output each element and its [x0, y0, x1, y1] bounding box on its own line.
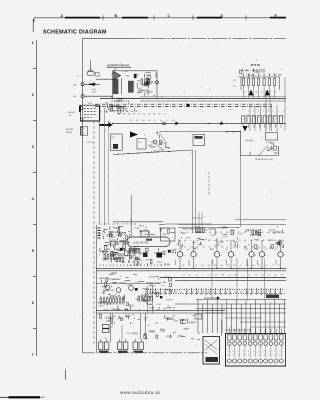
svg-text:Q884: Q884: [110, 295, 116, 298]
svg-text:GND: GND: [125, 76, 130, 78]
svg-text:R409: R409: [250, 235, 256, 237]
svg-text:SPKR: SPKR: [66, 132, 72, 134]
svg-text:R204: R204: [166, 335, 172, 338]
svg-text:SW985: SW985: [160, 142, 168, 144]
svg-text:120V: 120V: [92, 91, 97, 93]
svg-text:VR739: VR739: [248, 75, 254, 77]
svg-text:a: a: [238, 350, 239, 352]
svg-text:a: a: [274, 350, 275, 352]
svg-text:VR148: VR148: [149, 276, 155, 278]
svg-text:D933: D933: [109, 319, 114, 321]
svg-text:IC201 AN7062: IC201 AN7062: [133, 241, 149, 244]
svg-text:TR979: TR979: [166, 300, 173, 302]
svg-text:D843: D843: [185, 237, 190, 239]
svg-text:6: 6: [32, 301, 34, 305]
svg-text:VR758: VR758: [164, 264, 170, 266]
svg-text:NJM: NJM: [162, 234, 167, 236]
svg-text:TR130: TR130: [157, 262, 164, 264]
svg-text:C822: C822: [149, 307, 155, 309]
svg-text:Q694: Q694: [147, 145, 153, 147]
svg-text:a: a: [253, 350, 254, 352]
svg-text:C592: C592: [128, 285, 134, 287]
svg-text:L947: L947: [210, 235, 216, 237]
svg-text:Q752: Q752: [102, 259, 108, 261]
svg-text:1: 1: [32, 41, 34, 45]
svg-text:4: 4: [32, 197, 34, 201]
svg-text:IC943: IC943: [106, 321, 113, 323]
svg-text:R323: R323: [128, 305, 134, 307]
svg-text:D407: D407: [137, 88, 143, 90]
svg-text:SW940: SW940: [119, 283, 126, 285]
svg-text:SCHEMATIC DIAGRAM: SCHEMATIC DIAGRAM: [43, 29, 107, 35]
svg-text:D561: D561: [134, 282, 140, 284]
svg-text:3: 3: [32, 145, 34, 149]
svg-text:TR547: TR547: [142, 288, 149, 290]
svg-text:D172: D172: [159, 150, 165, 152]
svg-text:(2.0Ω NOTE p.76): (2.0Ω NOTE p.76): [255, 159, 273, 161]
svg-text:a: a: [269, 350, 270, 352]
svg-text:TR205: TR205: [159, 228, 166, 230]
svg-text:Q461: Q461: [143, 234, 149, 236]
svg-text:C601: C601: [126, 333, 131, 335]
svg-text:www.audiodna.sk: www.audiodna.sk: [120, 390, 161, 395]
svg-text:EQ: EQ: [112, 137, 115, 139]
svg-text:D267: D267: [123, 108, 128, 110]
svg-text:VR430: VR430: [149, 330, 156, 332]
svg-text:a: a: [227, 350, 228, 352]
svg-text:Q438: Q438: [151, 142, 157, 144]
svg-text:5: 5: [32, 249, 34, 253]
svg-text:a: a: [258, 350, 259, 352]
svg-text:a: a: [248, 350, 249, 352]
svg-text:Q141: Q141: [173, 320, 179, 322]
svg-text:Q753: Q753: [155, 283, 161, 285]
svg-text:FL101: FL101: [123, 71, 130, 73]
svg-text:IC645: IC645: [259, 70, 266, 72]
svg-text:a: a: [279, 350, 280, 352]
svg-text:2: 2: [32, 93, 34, 97]
svg-text:a: a: [232, 350, 233, 352]
svg-text:AC: AC: [74, 83, 77, 86]
svg-text:45+45+: 45+45+: [246, 141, 254, 143]
svg-text:VR322: VR322: [190, 322, 197, 324]
svg-text:C509: C509: [134, 228, 139, 230]
svg-text:7: 7: [32, 353, 34, 357]
svg-text:a: a: [264, 350, 265, 352]
svg-text:IC539: IC539: [109, 290, 114, 292]
svg-text:AT IF 43: AT IF 43: [251, 64, 261, 67]
svg-text:R594: R594: [189, 229, 195, 231]
svg-text:R354: R354: [139, 226, 145, 228]
svg-text:R707: R707: [150, 285, 156, 287]
svg-text:SW379: SW379: [209, 229, 217, 231]
svg-text:TR246: TR246: [138, 90, 144, 92]
svg-text:VR797: VR797: [117, 101, 124, 103]
svg-text:IC871: IC871: [98, 305, 103, 307]
svg-text:C201-A: C201-A: [86, 141, 94, 144]
svg-text:TR357: TR357: [135, 265, 142, 267]
svg-text:EXTRA: EXTRA: [66, 128, 74, 131]
svg-text:D165: D165: [255, 72, 261, 74]
svg-text:D224: D224: [150, 293, 156, 295]
svg-text:C747: C747: [222, 236, 228, 238]
svg-text:TP941: TP941: [132, 334, 139, 336]
svg-text:D130: D130: [219, 228, 225, 230]
svg-text:AC: AC: [74, 95, 77, 98]
svg-text:R605: R605: [160, 329, 165, 331]
svg-text:a: a: [243, 350, 244, 352]
svg-text:D469: D469: [118, 318, 123, 320]
svg-text:SW866: SW866: [146, 283, 154, 285]
